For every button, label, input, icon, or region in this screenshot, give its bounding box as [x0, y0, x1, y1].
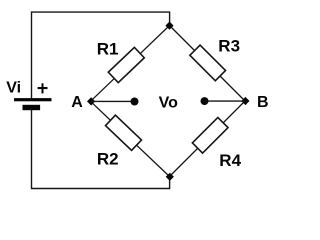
battery plus sign (horizontal bar) [38, 87, 48, 89]
svg-text:Vi: Vi [6, 80, 21, 97]
resistor R3 [190, 45, 226, 81]
Vo left terminal dot [131, 98, 139, 106]
battery Vi (bottom plate, negative) [23, 105, 41, 110]
wire: top rail from left rail to top corner [32, 12, 170, 98]
resistor R1 [108, 47, 144, 82]
wire: bridge edge node A to bottom vertex (R2 leg) [91, 101, 170, 176]
wire: bottom vertex to node B (R4 leg) [170, 101, 246, 177]
svg-text:R1: R1 [97, 40, 119, 59]
wire: bridge edge top vertex to node B (R3 leg) [170, 26, 246, 102]
svg-text:R3: R3 [218, 37, 240, 56]
wire: bridge edge top vertex to node A (R1 leg) [91, 26, 170, 102]
node B arrowhead [241, 97, 249, 105]
node A arrowhead [87, 97, 95, 105]
resistor R2 [105, 115, 141, 150]
battery plus sign (vertical bar) [42, 83, 44, 93]
junction: bottom vertex [166, 173, 174, 181]
Vo right terminal dot [201, 97, 209, 105]
battery Vi (top plate, positive) [14, 98, 52, 101]
resistor R4 [192, 117, 228, 153]
junction: top vertex [165, 22, 173, 30]
svg-text:R4: R4 [219, 151, 241, 170]
svg-text:B: B [257, 94, 269, 111]
svg-text:Vo: Vo [159, 95, 178, 112]
wire: node A to Vo left terminal [91, 100, 134, 102]
wire: Vo right terminal to node B [205, 100, 245, 102]
svg-text:A: A [71, 94, 83, 111]
svg-text:R2: R2 [97, 150, 119, 169]
wire: left rail below battery down to bottom rail [32, 110, 170, 189]
